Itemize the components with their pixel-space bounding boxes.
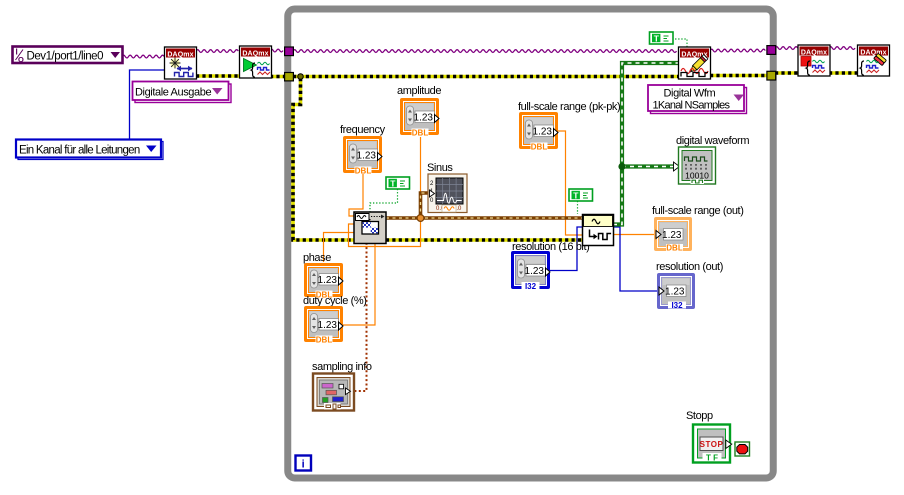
boolean constant T (near Sinus)	[386, 177, 410, 189]
svg-text:DAQmx: DAQmx	[801, 50, 827, 57]
loop condition terminal	[735, 442, 750, 456]
tunnel error left	[285, 73, 294, 81]
I/O control Dev1/port1/line0	[13, 47, 123, 65]
svg-text:full-scale range (pk-pk): full-scale range (pk-pk)	[518, 101, 620, 113]
svg-text:T: T	[390, 179, 396, 189]
ring Digital Wfm 1Kanal NSamples	[648, 85, 747, 114]
svg-text:Stopp: Stopp	[686, 410, 713, 422]
svg-text:Dev1/port1/line0: Dev1/port1/line0	[27, 51, 104, 63]
wire orange: amplitude down, under generator, into left input	[349, 137, 421, 247]
wire boolean dotted: T const to converter	[577, 201, 579, 214]
boolean constant T (near converter)	[569, 189, 593, 201]
DAQmx write node	[679, 47, 711, 79]
wire orange: frequency to generator	[349, 172, 363, 216]
wire blue: converter to resolution (out)	[613, 227, 659, 291]
tunnel purple right	[767, 46, 776, 55]
tunnel purple left	[285, 47, 294, 56]
wire error: right tunnel to stop node	[775, 71, 799, 75]
DAQmx create virtual channel node	[165, 47, 197, 79]
wire error: stop node to clear node	[829, 71, 858, 75]
svg-text:1.23: 1.23	[318, 320, 338, 331]
svg-text:DBL: DBL	[355, 166, 372, 175]
svg-text:DBL: DBL	[316, 335, 333, 344]
svg-text:full-scale range (out): full-scale range (out)	[652, 205, 743, 217]
wire error: start to left tunnel	[270, 75, 286, 79]
control amplitude	[400, 98, 439, 137]
wire purple: Dev control to create node	[122, 55, 164, 58]
svg-text:O: O	[18, 55, 24, 64]
svg-text:1Kanal NSamples: 1Kanal NSamples	[653, 100, 731, 112]
DAQmx start task node	[240, 46, 272, 78]
junction error dot	[298, 74, 304, 80]
svg-text:sampling info: sampling info	[312, 361, 372, 373]
graph indicator Sinus	[428, 174, 467, 213]
wire orange: full-scale range (pk-pk) to converter	[556, 131, 583, 235]
svg-text:duty cycle (%): duty cycle (%)	[303, 295, 366, 307]
wire boolean dotted: Stopp to condition terminal	[731, 443, 735, 445]
wire boolean dotted: T const to write node	[672, 39, 687, 47]
indicator digital waveform	[674, 147, 716, 184]
svg-text:1.23: 1.23	[533, 127, 553, 138]
function generator VI	[354, 212, 386, 244]
svg-text:Sinus: Sinus	[427, 162, 453, 174]
wire purple: stop node to clear node	[829, 47, 855, 50]
tunnel error right	[767, 71, 776, 80]
svg-text:frequency: frequency	[340, 124, 386, 136]
boolean control Stopp	[693, 425, 732, 463]
wire orange: duty cycle to generator bottom	[342, 243, 375, 325]
wire orange: converter to full-scale range (out)	[613, 234, 656, 236]
svg-text:I32: I32	[671, 301, 683, 310]
svg-text:phase: phase	[303, 252, 331, 264]
svg-text:T: T	[654, 34, 660, 44]
svg-text:DAQmx: DAQmx	[167, 52, 193, 59]
wire purple: create node to start node	[196, 50, 238, 53]
DAQmx stop task node	[798, 45, 830, 76]
wire orange: phase to generator	[324, 233, 356, 263]
indicator resolution (out)	[657, 273, 695, 310]
DAQmx clear task node	[858, 45, 890, 76]
wire blue: resolution (16 bit) to converter	[549, 227, 583, 271]
svg-text:1.23: 1.23	[525, 266, 545, 277]
svg-text:Digitale Ausgabe: Digitale Ausgabe	[135, 87, 211, 99]
junction waveform dot	[417, 215, 424, 222]
analog to digital waveform converter	[583, 215, 614, 246]
control resolution 16 bit (I32)	[511, 251, 550, 291]
wire purple: right tunnel to stop node	[775, 47, 798, 50]
wire purple: left tunnel to write node	[293, 50, 677, 53]
wire purple: start node to left tunnel	[270, 49, 283, 52]
svg-text:i: i	[302, 459, 305, 471]
svg-text:T F: T F	[706, 453, 718, 462]
svg-text:Digital Wfm: Digital Wfm	[664, 88, 716, 100]
svg-text:1.23: 1.23	[357, 151, 377, 162]
svg-text:1.23: 1.23	[318, 275, 338, 286]
svg-text:DAQmx: DAQmx	[242, 51, 268, 58]
control duty cycle	[304, 306, 343, 344]
wire purple: write node to right tunnel	[710, 49, 765, 52]
control frequency	[343, 136, 382, 175]
svg-text:Ein Kanal für alle Leitungen: Ein Kanal für alle Leitungen	[19, 145, 140, 157]
wire error: branch down to function generator row	[293, 78, 582, 240]
wire cluster dotted: sampling info to generator	[350, 243, 367, 391]
svg-text:1.23: 1.23	[414, 113, 434, 124]
svg-text:DBL: DBL	[412, 128, 429, 137]
svg-text:DAQmx: DAQmx	[860, 50, 886, 57]
wire waveform brown: generator out to converter, branch up to Sinus graph	[386, 193, 582, 221]
wire error: write node to right tunnel	[710, 74, 768, 78]
control phase	[304, 263, 343, 299]
boolean constant T (top right)	[650, 32, 674, 44]
svg-text:amplitude: amplitude	[397, 85, 441, 97]
svg-text:STOP: STOP	[700, 440, 724, 449]
svg-text:DBL: DBL	[531, 142, 548, 151]
svg-text:1.23: 1.23	[662, 230, 682, 241]
wire error: left tunnel to write node	[293, 75, 679, 79]
wire boolean dotted: T const to generator reset	[370, 189, 398, 212]
wire digital waveform green: converter out up to write node, branch to indicator	[613, 63, 679, 225]
cluster constant sampling info	[313, 374, 354, 411]
loop iteration terminal	[296, 456, 312, 471]
svg-text:1.23: 1.23	[665, 287, 685, 298]
svg-text:T: T	[573, 191, 579, 201]
while loop border	[288, 9, 774, 478]
control full-scale range pk-pk	[519, 112, 558, 151]
wire error: create to start	[196, 74, 240, 78]
svg-text:DBL: DBL	[666, 244, 683, 253]
ring Digitale Ausgabe	[133, 82, 232, 103]
enum Ein Kanal fuer alle Leitungen	[16, 140, 163, 160]
junction green dot	[618, 163, 625, 170]
indicator full-scale range (out)	[654, 217, 692, 253]
svg-text:digital waveform: digital waveform	[676, 135, 749, 147]
svg-text:I32: I32	[525, 282, 537, 291]
wire blue: enum up to create node	[130, 70, 166, 139]
svg-text:resolution (out): resolution (out)	[656, 261, 723, 273]
